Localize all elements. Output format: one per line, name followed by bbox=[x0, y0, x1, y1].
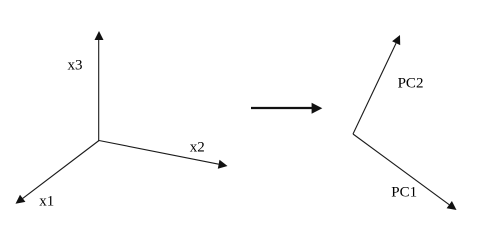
svg-text:x2: x2 bbox=[190, 140, 205, 156]
svg-text:x3: x3 bbox=[68, 58, 83, 74]
svg-text:PC2: PC2 bbox=[398, 76, 424, 92]
svg-text:PC1: PC1 bbox=[391, 185, 417, 201]
svg-text:x1: x1 bbox=[39, 193, 54, 209]
